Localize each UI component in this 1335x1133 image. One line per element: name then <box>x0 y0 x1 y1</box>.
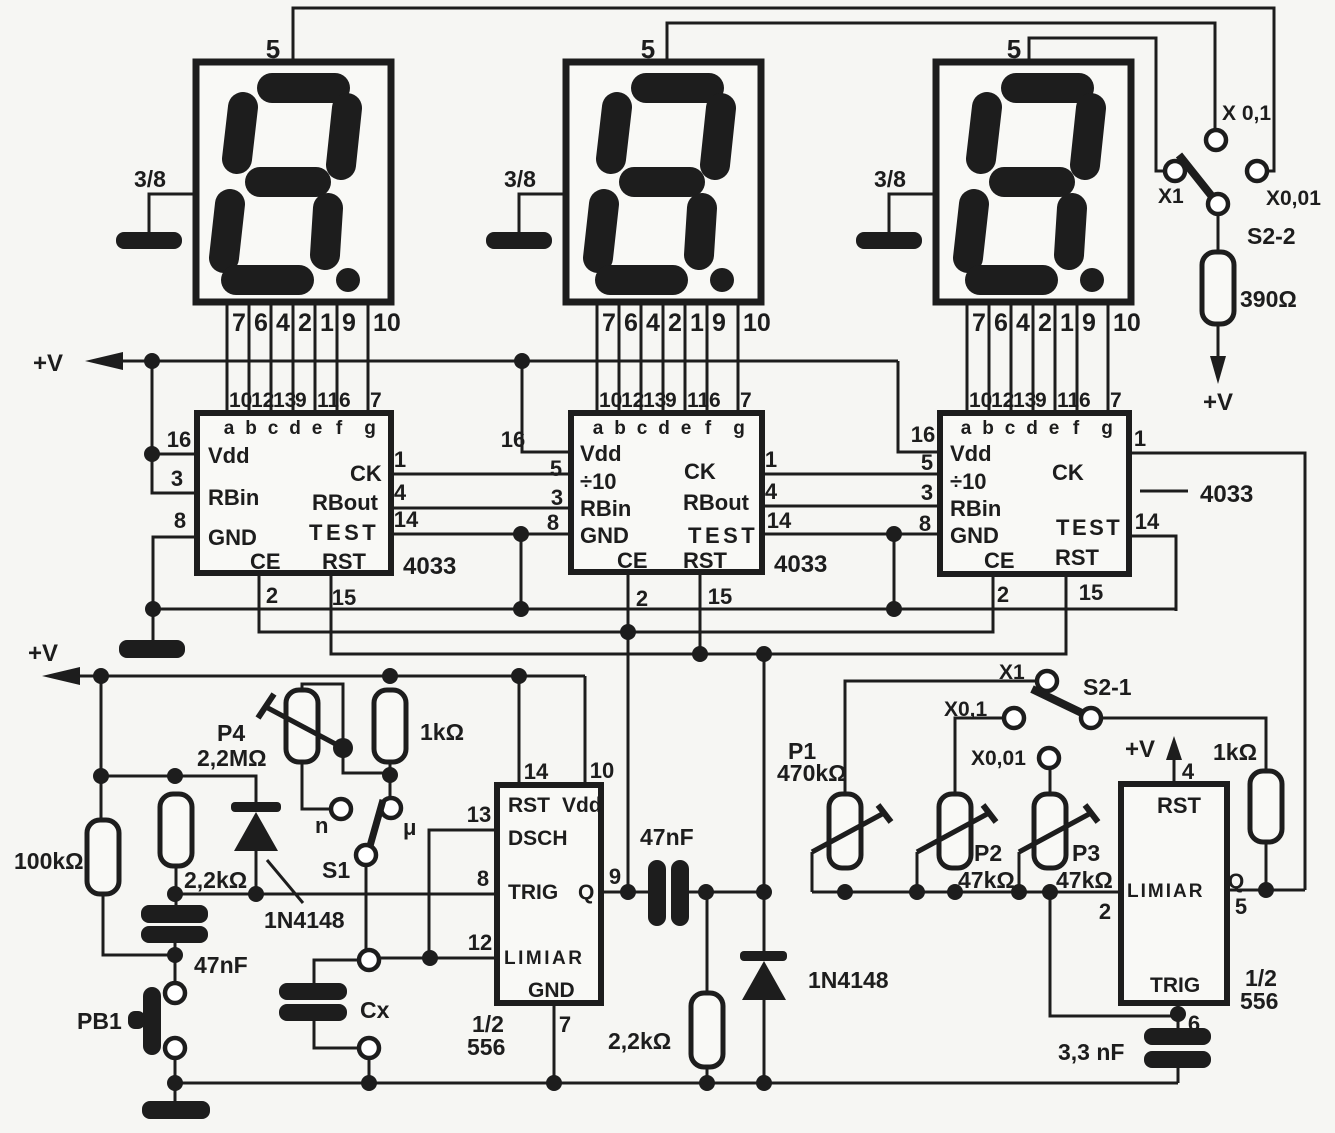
node junction rail to U2 supply <box>514 353 530 369</box>
svg-text:3,3 nF: 3,3 nF <box>1058 1039 1124 1065</box>
power +V arrow up (556b RST) <box>1166 736 1182 760</box>
pushbutton PB1 bottom contact <box>165 1038 185 1058</box>
svg-text:4: 4 <box>394 480 407 505</box>
pushbutton PB1 top contact <box>165 983 185 1003</box>
svg-text:390Ω: 390Ω <box>1240 286 1297 312</box>
pin 5 label DISP2 <box>641 34 655 64</box>
svg-text:g: g <box>733 418 745 439</box>
svg-text:f: f <box>1073 418 1080 439</box>
wire U3 TEST pin14 to ground bus <box>1129 536 1176 611</box>
pin label 5 556b Q <box>1235 894 1247 919</box>
svg-text:14: 14 <box>524 759 549 784</box>
label 100kohm <box>14 848 84 874</box>
pin label 2 U2 CE <box>636 586 648 611</box>
svg-text:Q: Q <box>578 881 594 904</box>
svg-text:PB1: PB1 <box>77 1008 122 1034</box>
svg-text:47nF: 47nF <box>640 824 694 850</box>
svg-text:9: 9 <box>1035 389 1047 412</box>
svg-text:13: 13 <box>1013 389 1036 412</box>
wire RST bus down to coupling node <box>763 654 766 892</box>
svg-text:7: 7 <box>972 309 986 337</box>
pin label 1 U1 CK <box>394 447 406 472</box>
svg-text:100kΩ: 100kΩ <box>14 848 84 874</box>
svg-text:+V: +V <box>1203 389 1233 416</box>
wire U2 RST pin15 to RST bus <box>699 572 702 654</box>
svg-text:4033: 4033 <box>774 551 827 578</box>
svg-text:X1: X1 <box>1158 185 1184 208</box>
wire P3 top to S2-1 X0,01 contact <box>1049 770 1052 794</box>
resistor R2 100k body <box>87 820 119 894</box>
wire RST bus chip1 to chip3 <box>331 573 1066 654</box>
counter IC U3 4033 body <box>940 413 1129 574</box>
7-segment display DISP3 (digit 8 with DP) <box>936 62 1131 302</box>
pin label 14 U1 TEST <box>394 507 419 532</box>
svg-text:RST: RST <box>508 794 550 817</box>
wire +V rail end to U3 Vdd pin 16 <box>898 361 940 452</box>
svg-text:1: 1 <box>765 447 777 472</box>
svg-text:CK: CK <box>1052 460 1084 485</box>
callout line 1N4148 D1 <box>267 860 303 903</box>
svg-text:2: 2 <box>997 582 1009 607</box>
wire 100k bottom to cap node <box>103 894 175 955</box>
pin label 5 U2 <box>550 456 562 481</box>
wire CE bus chip1 to chip3 <box>259 573 993 632</box>
label X0,01 (S2-1) <box>971 747 1026 770</box>
wire U2 CE pin2 down to 556a Q line <box>627 572 630 892</box>
node U2 GND on ground bus <box>513 601 529 617</box>
pin label 1 U3 CK <box>1134 426 1146 451</box>
label Q 556b <box>1228 870 1244 893</box>
svg-text:÷10: ÷10 <box>580 469 617 494</box>
ground symbol bottom left <box>142 1101 210 1119</box>
svg-text:Vdd: Vdd <box>562 794 602 817</box>
label 1/2 556 (556b) <box>1240 965 1278 1014</box>
wire 556b RST pin4 to +V arrow <box>1173 753 1176 784</box>
svg-text:÷10: ÷10 <box>950 469 987 494</box>
pin label 16 U1 <box>167 427 191 452</box>
power +V label (lower rail) <box>28 640 58 667</box>
node P3 bottom on pot bus <box>1042 884 1058 900</box>
node R4/P4 junction <box>382 767 398 783</box>
wire TRIG node line to 556a TRIG pin8 <box>175 893 497 896</box>
svg-text:TRIG: TRIG <box>1150 974 1200 997</box>
switch S2-2 contact X1 <box>1165 161 1185 181</box>
pin label 3 U1 <box>171 466 183 491</box>
node R5 top junction <box>698 884 714 900</box>
svg-text:TRIG: TRIG <box>508 881 558 904</box>
svg-text:9: 9 <box>712 309 726 337</box>
label u (micro) <box>403 815 416 840</box>
label X 0,1 <box>1222 102 1271 125</box>
wire R3 bottom stub <box>175 866 178 905</box>
svg-text:10: 10 <box>1113 309 1141 337</box>
svg-text:P4: P4 <box>217 720 245 746</box>
label 1kohm (R4) <box>420 719 464 745</box>
svg-text:9: 9 <box>609 864 621 889</box>
node U1 Vdd junction <box>144 446 160 462</box>
pin label 13 556a DSCH <box>467 802 491 827</box>
svg-text:X1: X1 <box>999 661 1025 684</box>
svg-text:RBin: RBin <box>580 496 631 521</box>
node P2 bottom on pot bus <box>947 884 963 900</box>
svg-text:a: a <box>224 418 235 439</box>
svg-text:+V: +V <box>33 350 63 377</box>
wire U3 GND down to ground bus <box>893 534 896 609</box>
svg-text:5: 5 <box>921 450 933 475</box>
wire U1 RBin pin 3 to +V <box>152 454 197 493</box>
node R6 on Q line <box>1258 882 1274 898</box>
node U1 GND on ground bus <box>145 601 161 617</box>
node 556a GND on ground bus <box>546 1075 562 1091</box>
pin label 15 U3 RST <box>1079 580 1103 605</box>
wire C1 bottom to PB1 <box>174 943 177 983</box>
pin label 8 U1 <box>174 508 186 533</box>
node U3 GND on ground bus <box>886 601 902 617</box>
svg-text:4033: 4033 <box>1200 481 1253 508</box>
node PB1 on ground bus <box>167 1075 183 1091</box>
wire 556a LIMIAR pin12 line <box>379 957 497 960</box>
svg-text:12: 12 <box>991 389 1014 412</box>
svg-text:f: f <box>336 418 343 439</box>
svg-text:6: 6 <box>624 309 638 337</box>
power +V arrow (lower rail) <box>42 667 80 685</box>
svg-text:10: 10 <box>599 389 622 412</box>
wire 556b Q pin5 to right riser <box>1227 889 1305 892</box>
svg-text:3/8: 3/8 <box>134 166 166 192</box>
terminal Cx bottom <box>359 1038 379 1058</box>
wire ground stub below bus <box>174 1083 177 1101</box>
svg-text:15: 15 <box>1079 580 1103 605</box>
svg-text:10: 10 <box>743 309 771 337</box>
svg-text:3/8: 3/8 <box>874 166 906 192</box>
node P1 bottom on pot bus <box>837 884 853 900</box>
pin label 2 U3 CE <box>997 582 1009 607</box>
label 3,3 nF (C3) <box>1058 1039 1124 1065</box>
pin label 8 U3 <box>919 511 931 536</box>
svg-text:16: 16 <box>911 422 935 447</box>
svg-text:n: n <box>315 813 328 838</box>
switch S2-2 lever <box>1179 155 1214 199</box>
wire D2 anode to ground bus <box>763 1000 766 1083</box>
node 556b TRIG junction <box>1170 1006 1186 1022</box>
label P1 <box>788 738 816 764</box>
svg-text:RST: RST <box>1055 545 1100 570</box>
label 1N4148 (D2) <box>808 967 889 993</box>
svg-text:c: c <box>1005 418 1016 439</box>
svg-text:RST: RST <box>683 548 728 573</box>
node U3 GND tie to ground bus <box>886 526 902 542</box>
svg-text:7: 7 <box>232 309 246 337</box>
svg-text:4: 4 <box>276 309 290 337</box>
power +V label (556b) <box>1125 736 1155 763</box>
label 390ohm <box>1240 286 1297 312</box>
diode D2 1N4148 cathode bar <box>740 951 787 961</box>
counter IC U2 4033 body <box>571 413 762 573</box>
wire display DISP1 pin 5 to S2-2 X0,01 contact <box>293 8 1274 171</box>
wire P1 wiper down to pot bus <box>811 852 814 892</box>
svg-text:μ: μ <box>403 815 416 840</box>
svg-text:b: b <box>982 418 994 439</box>
svg-text:e: e <box>312 418 323 439</box>
svg-text:7: 7 <box>559 1012 571 1037</box>
trimpot P1 wiper arrow <box>812 813 884 852</box>
svg-text:556: 556 <box>1240 988 1278 1014</box>
callout line 4033 of U3 <box>1140 490 1188 493</box>
pin label 16 U2 <box>501 427 525 452</box>
svg-text:P2: P2 <box>974 840 1002 866</box>
pin label 3 U2 <box>551 485 563 510</box>
svg-text:15: 15 <box>332 585 356 610</box>
label PB1 <box>77 1008 122 1034</box>
svg-text:TEST: TEST <box>309 520 379 545</box>
svg-text:8: 8 <box>919 511 931 536</box>
switch S2-2 contact X0,1 <box>1206 130 1226 150</box>
svg-text:13: 13 <box>643 389 666 412</box>
pin label 9 556a Q <box>609 864 621 889</box>
label X0,1 (S2-1) <box>944 698 988 721</box>
svg-text:Vdd: Vdd <box>580 441 622 466</box>
wire R 390 to +V arrow <box>1217 324 1220 356</box>
svg-text:X 0,1: X 0,1 <box>1222 102 1271 125</box>
wire U2 RBout pin4 to U3 RBin pin3 <box>762 505 940 508</box>
svg-text:2: 2 <box>1099 899 1111 924</box>
node C1 bottom junction <box>167 947 183 963</box>
wire P4 top to wiper node <box>302 684 390 773</box>
svg-text:10: 10 <box>969 389 992 412</box>
7-segment display DISP2 (digit 8 with DP) <box>566 62 761 302</box>
wire U3 CK pin1 to 556b Q output (right riser) <box>1129 453 1305 890</box>
svg-text:b: b <box>614 418 626 439</box>
svg-text:12: 12 <box>621 389 644 412</box>
4033 input pin numbers 10 12 13 9 11 6 7 of U3 <box>969 389 1122 412</box>
node D1 anode junction <box>248 886 264 902</box>
resistor R3 2.2k body <box>160 794 192 866</box>
wire pot bus to 556b LIMIAR pin2 <box>812 891 1121 894</box>
svg-text:X0,01: X0,01 <box>1266 187 1321 210</box>
label 1N4148 (D1) <box>264 907 345 933</box>
wire +V upper rail <box>119 360 898 363</box>
wire U2 GND down to ground bus <box>520 534 523 609</box>
svg-text:c: c <box>268 418 279 439</box>
svg-text:GND: GND <box>528 979 575 1002</box>
svg-text:4033: 4033 <box>403 553 456 580</box>
pin label 2 U1 CE <box>266 583 278 608</box>
svg-text:7: 7 <box>1110 389 1122 412</box>
svg-text:b: b <box>245 418 257 439</box>
svg-text:7: 7 <box>602 309 616 337</box>
label 470kohm (P1) <box>777 760 847 786</box>
svg-text:2: 2 <box>636 586 648 611</box>
label X1 (S2-1) <box>999 661 1025 684</box>
wire P2 wiper down to pot bus <box>916 852 919 892</box>
wire Cx bottom plate to terminal <box>314 1021 359 1048</box>
svg-text:RST: RST <box>322 549 367 574</box>
pin 5 label DISP1 <box>266 34 280 64</box>
svg-text:d: d <box>1026 418 1038 439</box>
node rail to 100k branch <box>93 668 109 684</box>
wire +V to U1 Vdd pin 16 <box>152 361 197 454</box>
wire S2-1 common to R6 1k <box>1101 718 1266 771</box>
svg-text:a: a <box>593 418 604 439</box>
svg-text:4: 4 <box>1016 309 1030 337</box>
pin label 5 U3 <box>921 450 933 475</box>
label S2-2 <box>1247 223 1296 249</box>
label P2 <box>974 840 1002 866</box>
pad 3/8 terminal of DISP1 <box>116 166 196 249</box>
pin label 4 U2 RBout <box>765 479 778 504</box>
power +V label (S2-2) <box>1203 389 1233 416</box>
svg-text:7: 7 <box>740 389 752 412</box>
svg-text:8: 8 <box>477 866 489 891</box>
svg-text:4: 4 <box>765 479 778 504</box>
switch S2-1 common contact <box>1081 708 1101 728</box>
label 1kohm (R6) <box>1213 739 1257 765</box>
trimpot P1 wiper tick <box>878 805 891 822</box>
svg-text:10: 10 <box>373 309 401 337</box>
node P3 wiper on pot bus <box>1011 884 1027 900</box>
wire +V to U2 Vdd pin 16 <box>522 361 571 452</box>
wire P2 top to S2-1 X0,1 <box>955 718 1004 794</box>
wire display DISP2 pin 5 to S2-2 X0,1 contact <box>667 23 1215 130</box>
svg-text:1: 1 <box>1060 309 1074 337</box>
label X1 <box>1158 185 1184 208</box>
pin label 4 556b RST <box>1182 759 1195 784</box>
4033 input pin numbers 10 12 13 9 11 6 7 of U2 <box>599 389 752 412</box>
switch S1 common contact <box>356 845 376 865</box>
switch S2-1 contact X0,01 <box>1039 748 1059 768</box>
svg-text:CE: CE <box>984 548 1015 573</box>
node 2.2k top junction <box>167 768 183 784</box>
capacitor C2 47nF right plate <box>671 860 689 926</box>
switch S1 lever <box>370 800 383 846</box>
label 4033 of U3 <box>1200 481 1253 508</box>
svg-text:Cx: Cx <box>360 997 390 1023</box>
svg-text:+V: +V <box>28 640 58 667</box>
svg-text:2,2kΩ: 2,2kΩ <box>608 1028 671 1054</box>
node U2 CE on CE bus <box>620 624 636 640</box>
pin 5 label DISP3 <box>1007 34 1021 64</box>
svg-text:14: 14 <box>394 507 419 532</box>
wire D1 anode to TRIG line <box>255 851 258 894</box>
svg-text:CE: CE <box>250 549 281 574</box>
pin label 15 U1 RST <box>332 585 356 610</box>
svg-text:CK: CK <box>350 461 382 486</box>
wire S1 common down to LIMIAR node <box>365 865 368 951</box>
wire U1 CK pin1 to U2 divide-by-10 pin5 <box>391 473 571 476</box>
wire U2 TEST pin14 to U3 GND pin8 <box>762 533 940 536</box>
resistor R4 1k body <box>374 690 406 762</box>
svg-text:47kΩ: 47kΩ <box>958 867 1015 893</box>
label 4033 of U2 <box>774 551 827 578</box>
svg-text:1: 1 <box>1134 426 1146 451</box>
svg-text:LIMIAR: LIMIAR <box>1127 881 1204 902</box>
wire P1 top to S2-1 X1 <box>845 681 1037 794</box>
switch S2-2 contact X0,01 <box>1247 161 1267 181</box>
svg-text:16: 16 <box>167 427 191 452</box>
svg-text:S2-2: S2-2 <box>1247 223 1296 249</box>
pin label 16 U3 <box>911 422 935 447</box>
trimpot P4 wiper arrow <box>266 707 343 748</box>
svg-text:12: 12 <box>468 930 492 955</box>
svg-text:Vdd: Vdd <box>208 443 250 468</box>
svg-text:13: 13 <box>467 802 491 827</box>
pin label 8 U2 <box>547 510 559 535</box>
svg-text:GND: GND <box>950 523 999 548</box>
terminal Cx top <box>359 950 379 970</box>
wire 556a Q pin9 output line <box>601 891 649 894</box>
capacitor C3 3.3nF top plate <box>1144 1028 1211 1045</box>
node A junction on 100k branch <box>93 768 109 784</box>
timer IC 556b body <box>1121 784 1227 1003</box>
svg-text:LIMIAR: LIMIAR <box>504 948 584 969</box>
svg-text:11: 11 <box>317 389 340 412</box>
label n <box>315 813 328 838</box>
label 2,2Mohm (P4) <box>197 745 267 771</box>
label 47kohm (P2) <box>958 867 1015 893</box>
pad 3/8 terminal of DISP3 <box>856 166 936 249</box>
svg-text:16: 16 <box>501 427 525 452</box>
capacitor C1 47nF bottom plate <box>141 926 208 943</box>
svg-text:f: f <box>705 418 712 439</box>
wires segment lines DISP1 pins to 4033 inputs <box>227 302 368 413</box>
trimpot P2 wiper tick <box>983 805 996 822</box>
trimpot P3 47k body <box>1034 794 1066 868</box>
switch S1 contact n <box>331 799 351 819</box>
svg-text:4: 4 <box>1182 759 1195 784</box>
node P4 wiper junction <box>333 738 353 758</box>
wire 556a GND pin7 to ground bus <box>553 1003 556 1083</box>
wire P4 bottom to S1 contact n <box>302 762 330 809</box>
svg-text:3/8: 3/8 <box>504 166 536 192</box>
wires segment lines DISP3 pins to 4033 inputs <box>967 302 1108 413</box>
svg-text:9: 9 <box>665 389 677 412</box>
svg-text:6: 6 <box>1079 389 1091 412</box>
resistor R1 390ohm body <box>1202 252 1234 324</box>
wire U1 GND pin 8 to ground bus <box>153 537 197 640</box>
pin label 14 U2 TEST <box>767 508 792 533</box>
svg-text:RBin: RBin <box>950 496 1001 521</box>
svg-text:RBout: RBout <box>312 490 379 515</box>
label X0,01 <box>1266 187 1321 210</box>
svg-text:2: 2 <box>668 309 682 337</box>
ground symbol below U1 <box>119 640 185 658</box>
pushbutton PB1 plunger cap <box>128 1011 145 1029</box>
label 1/2 556 (556a) <box>467 1011 505 1060</box>
capacitor C1 47nF top plate <box>141 905 208 923</box>
diode D2 1N4148 triangle <box>742 961 786 1000</box>
switch S1 contact u <box>381 798 401 818</box>
svg-text:11: 11 <box>1057 389 1080 412</box>
pin label 6 556b TRIG <box>1188 1011 1200 1036</box>
timer IC 556a body <box>497 785 602 1003</box>
svg-text:9: 9 <box>342 309 356 337</box>
label S2-1 <box>1083 674 1132 700</box>
svg-text:RST: RST <box>1157 793 1202 818</box>
7-segment display DISP1 (digit 8 with DP) <box>196 62 391 302</box>
pin label 4 U1 RBout <box>394 480 407 505</box>
svg-text:6: 6 <box>339 389 351 412</box>
svg-text:8: 8 <box>174 508 186 533</box>
wire pot bus down to 556b TRIG <box>1050 892 1178 1016</box>
svg-text:14: 14 <box>767 508 792 533</box>
svg-text:CE: CE <box>617 548 648 573</box>
svg-text:5: 5 <box>550 456 562 481</box>
pin label 1 U2 CK <box>765 447 777 472</box>
node Q to CE bus junction <box>620 884 636 900</box>
svg-text:9: 9 <box>1082 309 1096 337</box>
pin label 8 556a TRIG <box>477 866 489 891</box>
node rail to 556a RST <box>511 668 527 684</box>
